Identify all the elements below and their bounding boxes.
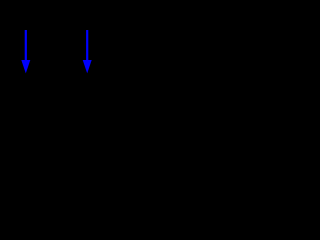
wire (bottom stub, left column, black-on-black) <box>25 89 27 100</box>
background <box>0 0 113 100</box>
wire (bottom stub, right column, black-on-black) <box>86 89 88 100</box>
wire (top stub, right column, black-on-black) <box>86 0 88 11</box>
arrow (left, blue, pointing down) <box>21 30 30 73</box>
wire (top stub, left column, black-on-black) <box>25 0 27 11</box>
arrow (right, blue, pointing down) <box>83 30 92 73</box>
